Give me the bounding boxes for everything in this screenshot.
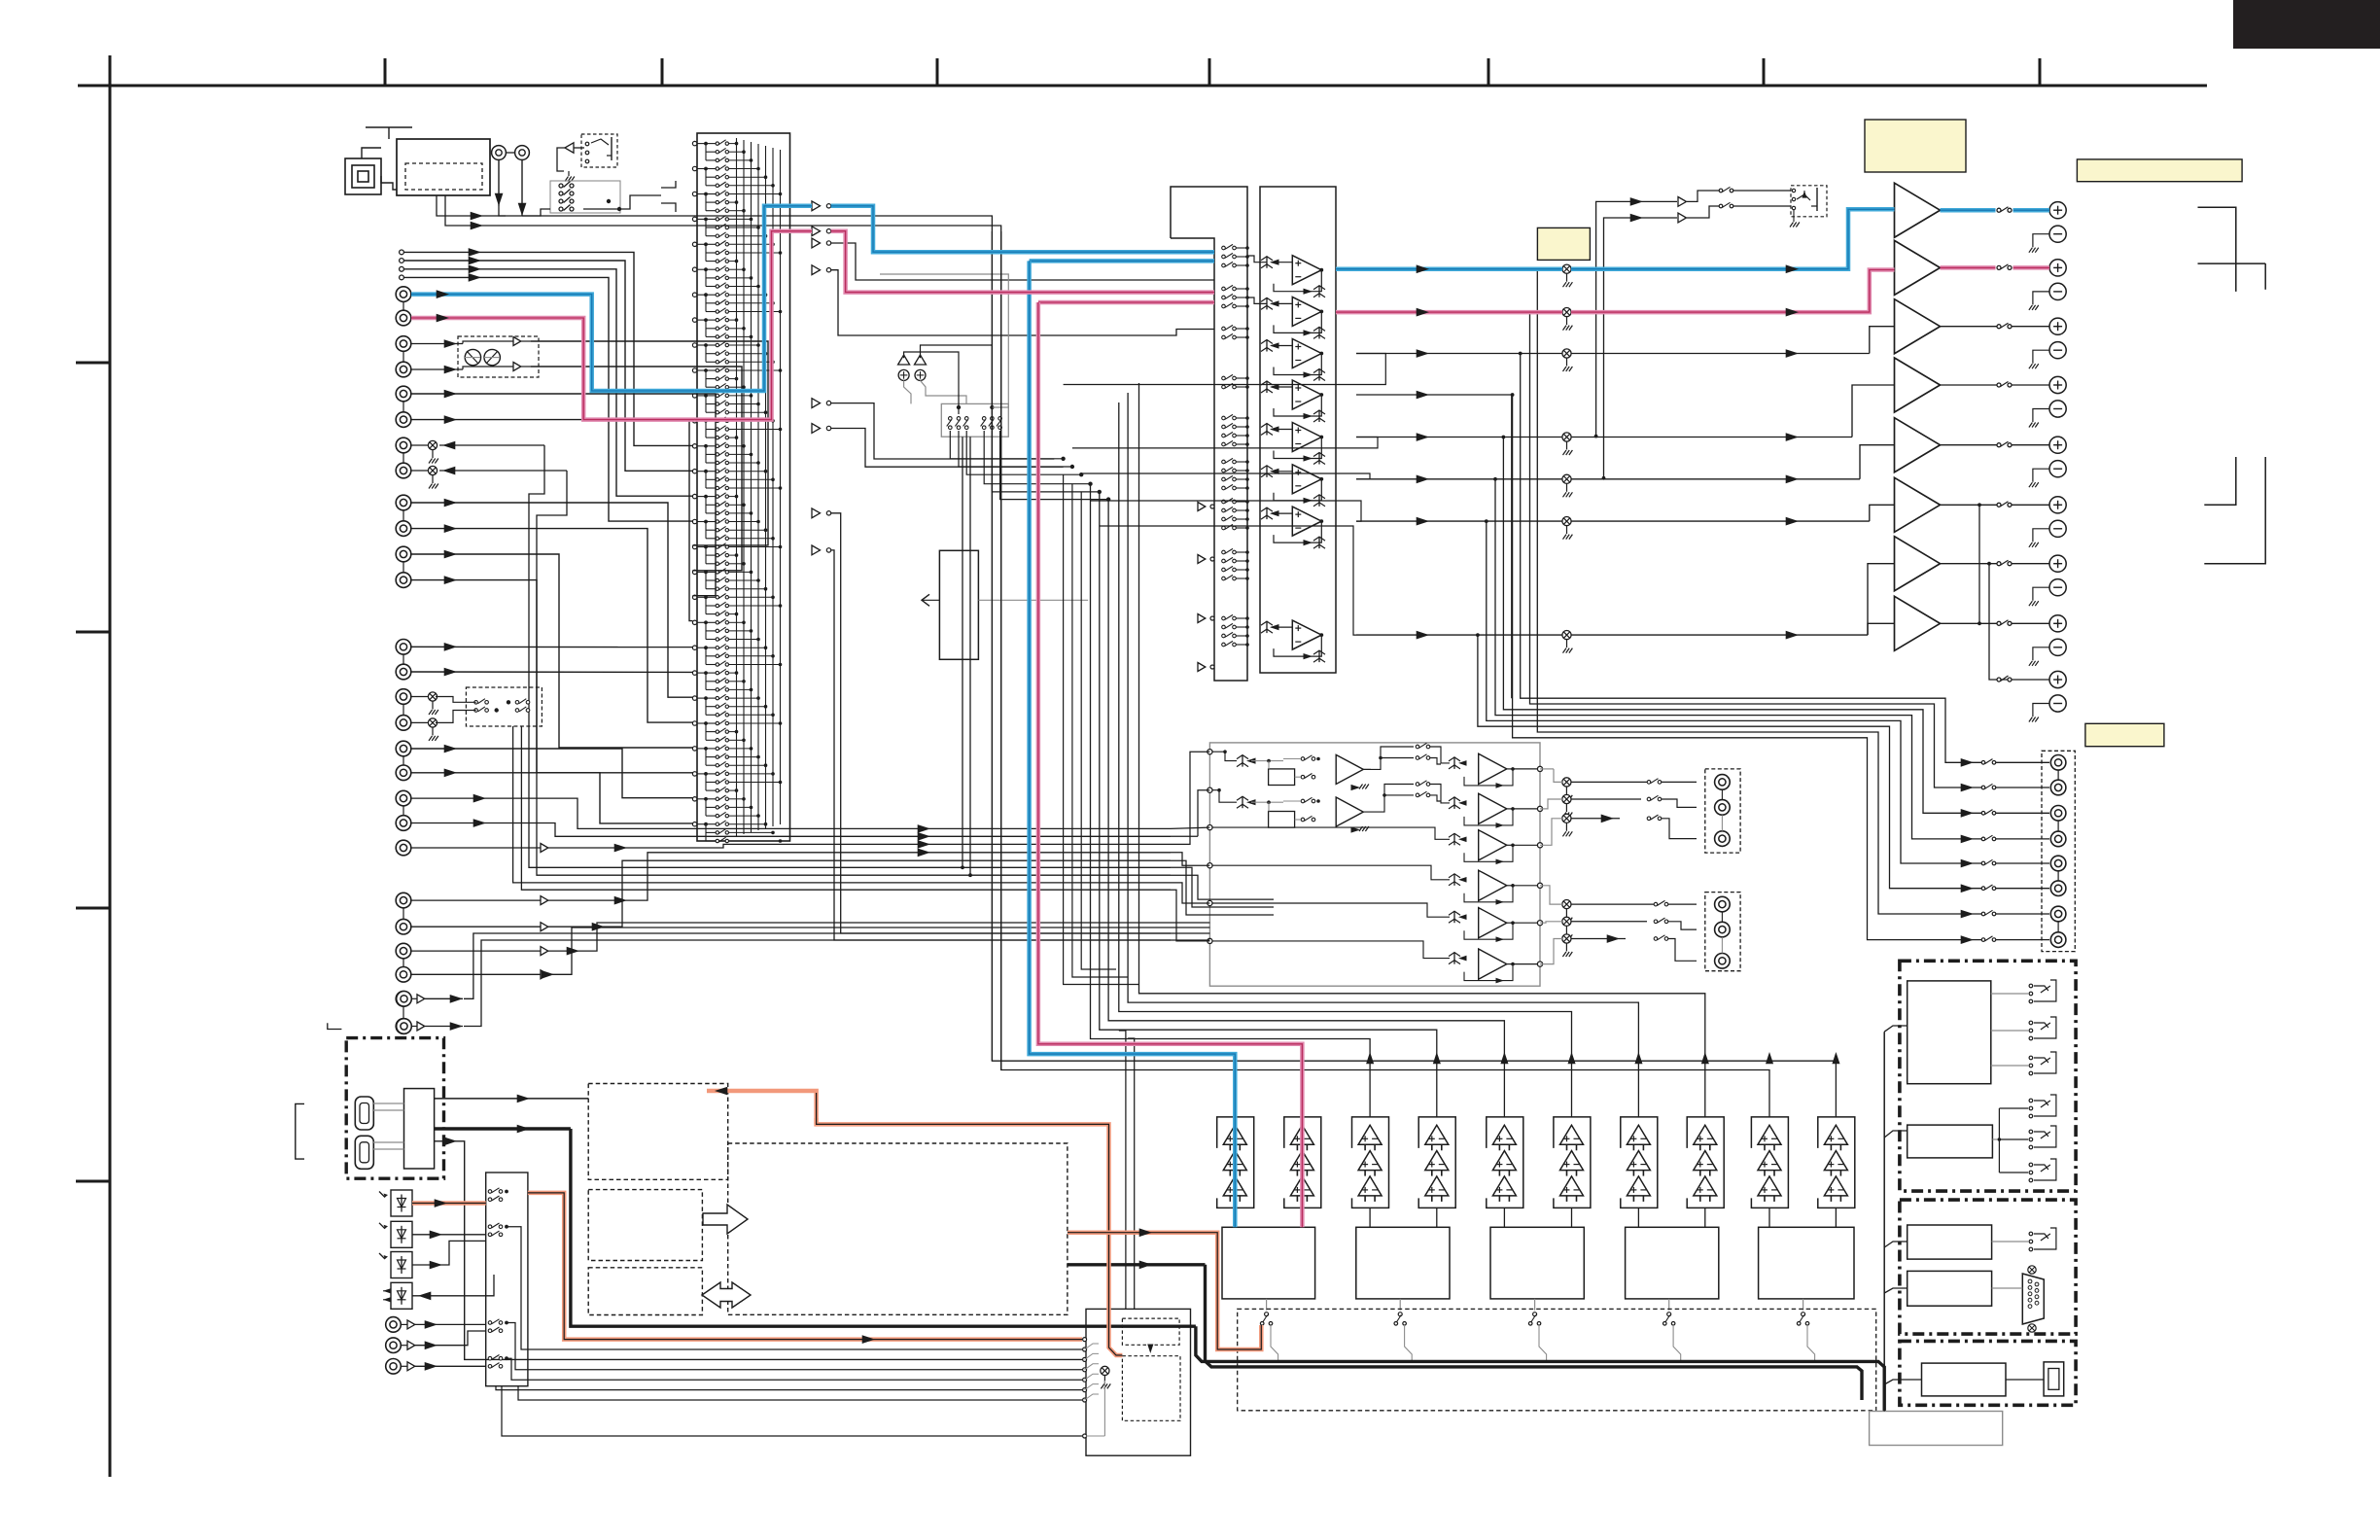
wire jack to matrix [404, 261, 692, 471]
zone sw g2a [1654, 902, 1658, 906]
volume attenuator [1562, 474, 1571, 483]
hdmi thick down [571, 1129, 1196, 1326]
matrix switch [706, 462, 716, 464]
input selector matrix outer box [697, 133, 790, 841]
record out route [966, 431, 1081, 474]
wire [2012, 326, 2049, 328]
matrix input chain [705, 194, 707, 211]
matrix input chain [705, 446, 707, 463]
zone in wire4 [1171, 853, 1209, 865]
matrix switch [706, 344, 716, 346]
RCA jack [396, 790, 411, 806]
terminal plus [2049, 615, 2066, 632]
zone att4 [1562, 900, 1571, 909]
terminal plus [2049, 497, 2066, 513]
page frame vertical border line [109, 55, 112, 1477]
RCA jack [396, 495, 411, 510]
speaker bracket D [2204, 457, 2265, 564]
digital out wires6 [502, 1386, 1082, 1436]
zone in res [1453, 953, 1455, 964]
op-amp [1292, 297, 1321, 326]
zone in wire2 [1171, 835, 1198, 837]
matrix switch [706, 176, 716, 178]
zone out wire5 [1540, 922, 1562, 923]
wire mc [411, 926, 541, 927]
matrix input stub [692, 570, 696, 574]
wire mc2 [548, 860, 1171, 927]
minus gnd wire [2033, 409, 2049, 423]
bank switch [1222, 255, 1226, 259]
frame tick [1763, 58, 1766, 86]
dsp box main [728, 1143, 1067, 1314]
op-amp arrow in [1270, 300, 1279, 306]
blue wire branch adc [1030, 259, 1214, 263]
matrix input stub [692, 620, 696, 624]
power amp [1895, 537, 1941, 591]
matrix input stub [692, 394, 696, 398]
matrix input stub [692, 166, 696, 170]
triple-amp box [1818, 1117, 1855, 1208]
preout link [2057, 922, 2059, 932]
jack link [402, 908, 404, 919]
zone out node [1537, 962, 1542, 966]
relay contacts [2029, 1021, 2033, 1025]
relay fan [1992, 1138, 1999, 1140]
amp out wire [1941, 622, 2000, 624]
wire [557, 148, 565, 171]
hdmi out2 thick [435, 1127, 571, 1130]
terminal plus [2049, 202, 2066, 219]
dot [704, 620, 708, 624]
fan arrow [1961, 910, 1974, 919]
zone in res [1453, 833, 1455, 845]
feedback sym [1304, 413, 1313, 419]
volume tap vertical [1503, 437, 1983, 814]
relay contacts2 [2029, 1163, 2033, 1167]
big arrow double [702, 1282, 751, 1308]
RCA jack [396, 716, 411, 731]
preout switch [1981, 887, 1985, 891]
arrowheads mid [918, 824, 930, 833]
RCA jack [396, 336, 411, 352]
matrix input stub [692, 267, 696, 271]
wire [366, 126, 412, 128]
op-amp [1292, 620, 1321, 649]
matrix switch [706, 831, 716, 833]
opt wire3 [412, 1241, 486, 1265]
dot [704, 267, 708, 271]
farm tone1 sel [1430, 747, 1450, 763]
zone out node [1537, 766, 1542, 771]
op-amp [1292, 380, 1321, 409]
triple-amp box [1418, 1117, 1455, 1208]
vaux join [464, 933, 1171, 998]
drop wire [992, 231, 1836, 1117]
zone sw g2b [1654, 920, 1658, 924]
vaux jack2 [397, 1019, 412, 1034]
yellow label amp [1865, 120, 1966, 172]
orange wire dsp down [817, 1118, 1123, 1355]
minus gnd wire [2033, 234, 2049, 248]
matrix input chain [705, 572, 707, 588]
jack link [402, 654, 404, 664]
ctrl vert line [1883, 1032, 1885, 1411]
zone wire att5 [1571, 921, 1647, 923]
tap dot [1528, 310, 1532, 314]
DAC block [1626, 1227, 1719, 1299]
dot [704, 646, 708, 649]
loopback wire [1064, 354, 1386, 385]
bus vertical B [445, 195, 1001, 1070]
record sw [982, 417, 986, 421]
bank switch [1222, 500, 1226, 504]
dot [704, 444, 708, 448]
optical connector [391, 1252, 412, 1278]
dot [704, 242, 708, 246]
minus gnd wire [2033, 587, 2049, 601]
RCA jack [396, 664, 411, 680]
zone opamp [1479, 870, 1507, 900]
matrix switch [706, 521, 716, 523]
thick rail 2b [1206, 1265, 1863, 1400]
zone out node [1537, 921, 1542, 926]
inverter buf2 [1198, 555, 1206, 564]
feedback sym [1304, 330, 1313, 335]
tuner stub [400, 266, 404, 271]
wire mc [411, 973, 541, 975]
amp col wire [1835, 1207, 1837, 1227]
wire mc2 [548, 844, 1171, 848]
mc buffer [541, 923, 548, 931]
DAC out wire [1266, 1299, 1268, 1311]
zone out node [1537, 806, 1542, 811]
zone att3 [1562, 814, 1571, 822]
record sw [964, 417, 968, 421]
pink wire branch adc [1038, 300, 1214, 305]
preout wire [1996, 939, 2049, 941]
digital out wires3 [507, 1358, 1082, 1380]
opamp bank box [1260, 187, 1336, 673]
matrix switch [706, 697, 716, 699]
tone opamp2 [1336, 797, 1363, 826]
RCA jack [396, 287, 411, 302]
blue wire input [411, 295, 695, 391]
remote sensor symbol [345, 158, 381, 194]
matrix switch [706, 639, 716, 641]
zone out wire4 [1540, 886, 1562, 904]
matrix input chain [705, 144, 707, 160]
terminal plus [2049, 437, 2066, 453]
col arrow [1634, 1052, 1642, 1064]
farm wire R2 [1212, 827, 1450, 839]
terminal plus [2049, 376, 2066, 393]
matrix switch [706, 210, 716, 212]
matrix out buffer [812, 399, 821, 408]
blue wire matrix [695, 206, 812, 391]
orange wire sw out [528, 1193, 1082, 1340]
coax jack1 [386, 1317, 402, 1333]
digital switch [488, 1198, 492, 1202]
matrix switch [706, 630, 716, 632]
blue wire to bank [831, 206, 1214, 252]
tuner stub [400, 275, 404, 280]
zone in wire3 [1171, 752, 1209, 844]
drop wire [1119, 402, 1572, 1117]
DAC out wire [1534, 1299, 1536, 1311]
preout switch [1981, 912, 1985, 916]
loopback wire [1072, 437, 1378, 448]
switch [559, 199, 563, 203]
dot [704, 671, 708, 675]
hp tap2 [1604, 218, 1678, 478]
speaker switch [1997, 443, 2001, 447]
matrix switch [706, 806, 716, 808]
feedback sym [1304, 289, 1313, 295]
triple-amp box [1687, 1117, 1724, 1208]
matrix input stub [692, 671, 696, 675]
record wires [436, 711, 476, 723]
amp col wire [1369, 1207, 1371, 1227]
arrow [411, 317, 447, 319]
tone in sym1 [1242, 755, 1243, 767]
speaker bracket A [2198, 207, 2236, 292]
matrix switch [706, 782, 716, 784]
volume tap vertical [1530, 312, 1984, 787]
zone jacks box2 [1705, 892, 1740, 971]
dir dashed2 [1122, 1356, 1180, 1421]
matrix switch [706, 764, 716, 766]
rec att3 [411, 696, 428, 698]
wire phono to matrix2 [531, 367, 742, 571]
dir box [1086, 1309, 1191, 1455]
record out route [992, 431, 1099, 492]
dot [704, 822, 708, 826]
matrix switch [706, 159, 716, 161]
wire [2012, 444, 2049, 446]
amp col wire [1571, 1207, 1573, 1227]
pink wire to bank [831, 231, 1214, 293]
RCA jack [396, 992, 411, 1007]
zone jacks box1 [1705, 769, 1740, 853]
zone jack2 [1715, 954, 1731, 969]
triple-amp tris [1627, 1125, 1650, 1144]
inverter buf4 [1198, 663, 1206, 672]
volume row step [1860, 445, 1895, 479]
relay wire [1991, 993, 2028, 995]
feedback loop [1274, 437, 1321, 459]
dot [704, 218, 708, 222]
col arrow [1433, 1052, 1441, 1064]
dir arrow [1149, 1345, 1151, 1351]
wire [2012, 504, 2049, 506]
matrix out buffer [812, 201, 821, 211]
phono transistor A [465, 349, 480, 365]
zone input node [1207, 825, 1212, 830]
bank switch [1222, 559, 1226, 563]
triple-amp tris [1425, 1125, 1449, 1144]
DAC out wire [1802, 1299, 1804, 1311]
zone sel sw3 [1416, 783, 1419, 787]
volume row step [1868, 623, 1895, 635]
op-amp input res [1266, 621, 1268, 633]
hp arrow up [1803, 191, 1805, 197]
frame tick [1208, 58, 1211, 86]
tone fb1 [1363, 768, 1371, 770]
ground [568, 171, 570, 176]
wire [904, 352, 959, 414]
summing wire1 [904, 380, 911, 403]
bank switch [1222, 246, 1226, 250]
zone opamp [1479, 830, 1507, 860]
RCA jack [396, 741, 411, 756]
matrix input stub [692, 747, 696, 751]
big arrow right [703, 1205, 748, 1234]
matrix input stub [692, 318, 696, 322]
col arrow [1366, 1052, 1374, 1064]
matrix input stub [692, 797, 696, 801]
matrix input chain [705, 269, 707, 286]
triple-amp box [1487, 1117, 1523, 1208]
RCA jack [396, 840, 411, 856]
hdmi box [346, 1038, 443, 1179]
jack link [402, 705, 404, 716]
preout dashed box [2042, 751, 2075, 951]
preout jack [2050, 932, 2066, 948]
matrix bus [765, 146, 767, 828]
terminal plus [2049, 555, 2066, 572]
jack phones A [492, 146, 507, 160]
matrix switch [706, 588, 716, 590]
bank switch [1222, 477, 1226, 481]
jack link [402, 302, 404, 310]
hdmi out1 [435, 1098, 589, 1100]
dot [704, 520, 708, 524]
preout switch [1981, 837, 1985, 841]
dot [704, 747, 708, 751]
tone sw1 [1301, 757, 1305, 761]
tone sw2 [1301, 775, 1305, 779]
DAC block [1490, 1227, 1584, 1299]
RCA jack [396, 816, 411, 831]
dot [704, 192, 708, 196]
zone jack link1 [1721, 789, 1723, 799]
zone opamp [1479, 753, 1507, 784]
amp out wire [1941, 384, 2000, 386]
tone fb sym2 [1351, 826, 1361, 832]
hp gnd [1793, 210, 1795, 222]
op-amp arrow in [1270, 469, 1279, 474]
speaker bracket C [2204, 457, 2236, 505]
op-amp input res [1266, 424, 1268, 436]
matrix switch [706, 739, 716, 741]
digital switch box [486, 1172, 528, 1386]
preout wire [1996, 812, 2049, 814]
matrix switch [706, 437, 716, 438]
wire jack to matrix [404, 252, 692, 445]
zone route down [1356, 394, 1512, 396]
matrix switch [706, 185, 716, 187]
amp out wire [1941, 444, 2000, 446]
dot [704, 797, 708, 801]
pink wire vol out [1571, 270, 1895, 313]
frame tick left [76, 631, 110, 634]
matrix out buffer [812, 227, 821, 236]
terminal minus [2049, 401, 2066, 417]
matrix input stub [692, 721, 696, 725]
zone out node [1537, 883, 1542, 888]
wire buffer4 route [831, 270, 1214, 335]
zone in res [1453, 797, 1455, 809]
matrix switch [706, 328, 716, 330]
matrix switch [706, 496, 716, 498]
RCA jack [396, 573, 411, 588]
speaker switch [1997, 325, 2001, 329]
farm wire R1 [1212, 790, 1237, 803]
feedback loop [1274, 354, 1321, 375]
zone input node [1207, 938, 1212, 943]
jack link [402, 510, 404, 521]
feedback sym [1304, 498, 1313, 504]
RCA jack [396, 412, 411, 428]
matrix switch [706, 168, 716, 170]
jack link [402, 402, 404, 412]
volume row wire2 [1571, 634, 1868, 636]
thick rail 2 [1212, 1241, 2042, 1366]
feedback loop [1274, 479, 1321, 501]
frame tick [661, 58, 664, 86]
bank switch [1222, 425, 1226, 429]
relay wire [1991, 1030, 2028, 1032]
op-amp arrow in [1270, 624, 1279, 630]
matrix switch [706, 235, 716, 237]
volume tap vertical [1537, 269, 1983, 914]
optical connector [391, 1221, 412, 1247]
volume row wire [1356, 437, 1562, 438]
record out drop2 [521, 726, 1171, 890]
tone in sym2 [1242, 796, 1243, 808]
wire mc [411, 823, 1171, 837]
grey box bottom [1870, 1412, 2003, 1446]
triple-amp tris [1492, 1125, 1516, 1144]
dot [607, 199, 611, 203]
fan arrow [1961, 809, 1974, 818]
volume row wire2 [1571, 437, 1852, 438]
op-amp input res [1266, 340, 1268, 352]
power amp [1895, 477, 1941, 532]
matrix switch [706, 403, 716, 405]
triple-amp tris [1223, 1125, 1246, 1144]
matrix bus [743, 140, 745, 834]
tap dot [1519, 352, 1522, 356]
matrix switch [706, 143, 716, 145]
amp7 feed [1868, 564, 1895, 635]
bank switch [1222, 434, 1226, 437]
blue wire amp out [1941, 208, 1996, 213]
matrix input stub [692, 368, 696, 372]
matrix switch [706, 193, 716, 195]
zone in wire7 [1171, 860, 1274, 915]
matrix switch [706, 252, 716, 254]
zone in res [1453, 874, 1455, 886]
matrix switch [706, 218, 716, 220]
yellow label box volume [1537, 227, 1590, 260]
bank switch [1222, 263, 1226, 267]
power amp [1895, 358, 1941, 412]
DAC switch [1533, 1312, 1537, 1316]
loopback wire [1091, 501, 1362, 521]
rec drop2 [537, 471, 1171, 875]
hp buffer2 [1678, 213, 1687, 223]
